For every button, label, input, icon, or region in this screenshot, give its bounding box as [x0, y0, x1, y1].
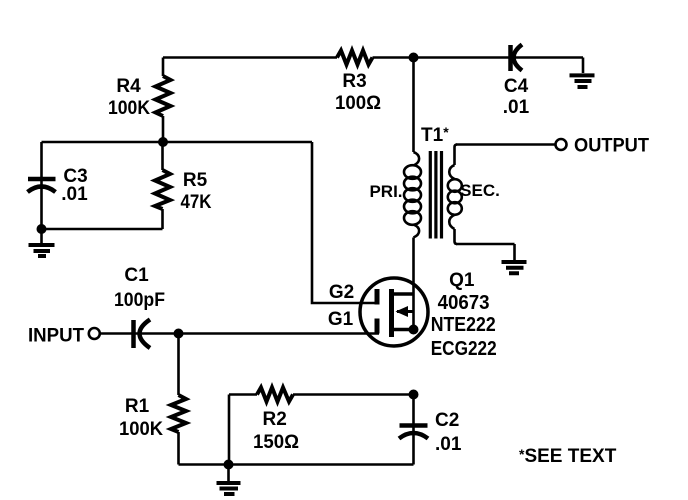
- wire secondary top to output: [456, 143, 556, 146]
- resistor R4: [156, 58, 171, 143]
- capacitor C1: [134, 320, 151, 349]
- svg-text:*SEE TEXT: *SEE TEXT: [519, 446, 617, 467]
- terminal OUTPUT: [556, 139, 567, 150]
- ground C3: [29, 229, 55, 256]
- node ground junction: [224, 460, 234, 470]
- svg-text:OUTPUT: OUTPUT: [574, 136, 649, 157]
- capacitor C3: [28, 142, 56, 229]
- ground secondary: [502, 244, 527, 273]
- node input junction: [174, 329, 184, 339]
- wire bias bottom: [42, 228, 163, 231]
- svg-text:G1: G1: [328, 309, 354, 330]
- svg-text:C4: C4: [504, 76, 529, 97]
- transformer T1 core: [430, 151, 441, 239]
- transformer T1 primary: [404, 152, 421, 238]
- wire input to G1: [100, 332, 379, 335]
- resistor R1: [171, 334, 186, 465]
- svg-text:R4: R4: [116, 76, 141, 97]
- svg-text:.01: .01: [435, 434, 462, 455]
- svg-text:PRI.: PRI.: [369, 182, 402, 201]
- wire G2 riser: [312, 142, 379, 303]
- svg-text:47K: 47K: [181, 192, 212, 213]
- wire drain to MOSFET: [412, 238, 415, 295]
- svg-text:C1: C1: [124, 265, 149, 286]
- wire top rail: [163, 56, 583, 59]
- terminal INPUT: [89, 328, 100, 339]
- svg-text:40673: 40673: [438, 292, 490, 314]
- ground C4: [570, 58, 595, 88]
- resistor R2: [229, 388, 414, 465]
- resistor R5: [155, 142, 170, 229]
- wire drain vertical: [412, 58, 415, 153]
- svg-text:R1: R1: [125, 396, 150, 417]
- svg-text:R3: R3: [342, 71, 366, 92]
- svg-text:.01: .01: [61, 184, 88, 205]
- svg-text:.01: .01: [503, 97, 530, 118]
- svg-text:100K: 100K: [108, 98, 150, 119]
- svg-text:100K: 100K: [119, 419, 163, 440]
- svg-text:100pF: 100pF: [114, 290, 165, 311]
- svg-text:ECG222: ECG222: [431, 338, 497, 360]
- wire gate bias rail: [42, 141, 313, 144]
- svg-text:R2: R2: [263, 409, 287, 430]
- svg-text:NTE222: NTE222: [431, 314, 496, 336]
- svg-text:150Ω: 150Ω: [253, 432, 299, 453]
- svg-text:G2: G2: [329, 282, 354, 303]
- node bias junction: [158, 137, 168, 147]
- svg-text:T1*: T1*: [421, 124, 449, 146]
- svg-text:INPUT: INPUT: [28, 326, 84, 347]
- svg-text:SEC.: SEC.: [460, 181, 500, 200]
- resistor R3: [337, 51, 373, 65]
- capacitor C4: [511, 45, 523, 72]
- wire source to C2: [412, 395, 415, 465]
- wire bottom rail: [179, 463, 414, 466]
- transistor Q1: [360, 278, 428, 346]
- svg-text:R5: R5: [183, 170, 208, 191]
- wire secondary bottom: [456, 243, 515, 246]
- node C3 ground junction: [37, 224, 47, 234]
- node drain junction: [409, 53, 419, 63]
- node source junction: [409, 390, 419, 400]
- capacitor C2: [399, 426, 428, 439]
- svg-text:Q1: Q1: [449, 270, 475, 291]
- svg-text:C2: C2: [435, 410, 459, 431]
- transformer T1 secondary: [448, 145, 462, 245]
- svg-text:100Ω: 100Ω: [335, 93, 381, 114]
- ground bottom: [217, 465, 241, 495]
